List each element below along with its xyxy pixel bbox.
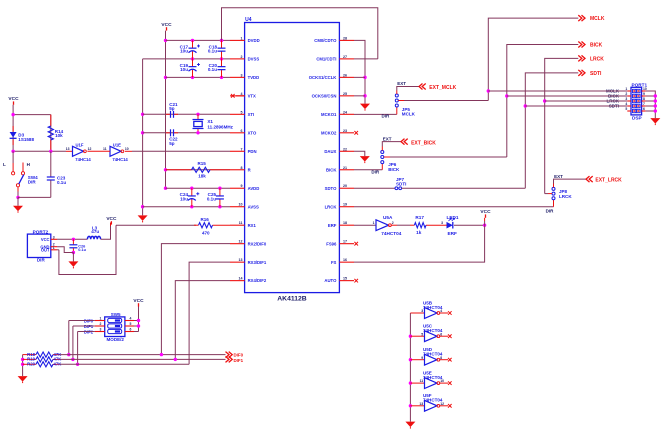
svg-text:DIR: DIR (37, 258, 46, 263)
svg-text:8: 8 (241, 166, 243, 170)
svg-text:10u: 10u (180, 67, 188, 72)
svg-text:11: 11 (420, 379, 424, 383)
svg-text:10k: 10k (55, 133, 63, 138)
svg-text:28: 28 (343, 36, 347, 40)
svg-text:R16: R16 (201, 217, 210, 222)
svg-text:11.2896MHz: 11.2896MHz (207, 124, 233, 129)
svg-text:6: 6 (440, 332, 442, 336)
svg-text:DSP: DSP (632, 115, 642, 120)
svg-text:LRCK: LRCK (325, 204, 338, 209)
svg-text:EXT: EXT (554, 174, 563, 179)
svg-text:27: 27 (343, 55, 347, 59)
svg-text:RX4/DIF2: RX4/DIF2 (248, 278, 267, 283)
svg-text:PDN: PDN (248, 149, 257, 154)
svg-text:R15: R15 (198, 161, 207, 166)
svg-text:MODE/2: MODE/2 (107, 337, 125, 342)
svg-text:LRCK: LRCK (559, 194, 572, 199)
svg-text:3: 3 (421, 309, 423, 313)
svg-text:BICK: BICK (326, 167, 337, 172)
svg-text:5: 5 (130, 322, 132, 326)
svg-text:U5A: U5A (383, 215, 393, 220)
svg-text:20: 20 (343, 184, 347, 188)
svg-text:VCC: VCC (8, 96, 19, 102)
svg-text:XTO: XTO (248, 130, 257, 135)
svg-text:1: 1 (53, 246, 55, 250)
svg-text:24: 24 (343, 110, 347, 114)
svg-text:R17: R17 (415, 215, 424, 220)
svg-text:4: 4 (241, 92, 243, 96)
svg-text:9: 9 (643, 92, 645, 96)
svg-text:11: 11 (239, 221, 243, 225)
svg-text:SW5: SW5 (111, 312, 121, 317)
svg-text:VCC: VCC (161, 22, 172, 28)
svg-text:2: 2 (392, 221, 394, 225)
svg-text:MCLK: MCLK (590, 16, 605, 22)
svg-text:DVDD: DVDD (248, 38, 260, 43)
svg-text:DVSS: DVSS (248, 56, 260, 61)
svg-text:EXT: EXT (397, 81, 406, 86)
svg-text:10: 10 (239, 203, 243, 207)
svg-text:7: 7 (241, 147, 243, 151)
svg-text:RX1: RX1 (248, 223, 257, 228)
svg-text:26: 26 (343, 73, 347, 77)
svg-text:19: 19 (343, 203, 347, 207)
svg-text:8: 8 (643, 97, 645, 101)
svg-text:10: 10 (125, 147, 129, 151)
svg-text:3: 3 (441, 221, 443, 225)
svg-text:12: 12 (440, 402, 444, 406)
svg-text:EXT_BICK: EXT_BICK (411, 140, 436, 146)
svg-text:1k: 1k (416, 230, 422, 235)
svg-text:MCLK: MCLK (402, 112, 416, 117)
svg-text:10: 10 (440, 379, 444, 383)
svg-text:1: 1 (373, 221, 375, 225)
svg-text:AVSS: AVSS (248, 204, 259, 209)
svg-text:74HC14: 74HC14 (112, 157, 128, 162)
svg-text:U1E: U1E (113, 142, 121, 147)
svg-text:LRCK: LRCK (590, 57, 604, 63)
svg-text:ERF: ERF (328, 223, 337, 228)
svg-text:VCC: VCC (133, 298, 144, 304)
svg-text:13: 13 (239, 258, 243, 262)
svg-text:DIR: DIR (371, 170, 380, 175)
svg-text:LED1: LED1 (447, 215, 459, 220)
svg-text:VCC: VCC (41, 237, 50, 242)
svg-text:RX2/DIF0: RX2/DIF0 (248, 241, 267, 246)
svg-text:15: 15 (343, 277, 347, 281)
svg-text:VTX: VTX (248, 93, 256, 98)
svg-text:3: 3 (241, 73, 243, 77)
svg-text:18k: 18k (198, 173, 206, 178)
svg-text:0.1u: 0.1u (208, 49, 217, 54)
svg-text:5p: 5p (169, 141, 175, 146)
svg-text:13: 13 (66, 147, 70, 151)
svg-text:EXT_MCLK: EXT_MCLK (429, 85, 456, 91)
svg-text:5: 5 (625, 107, 627, 111)
svg-text:10u: 10u (180, 49, 188, 54)
svg-text:3: 3 (53, 235, 55, 239)
svg-text:OCKS0/CSN: OCKS0/CSN (312, 93, 337, 98)
svg-text:XTI: XTI (248, 112, 255, 117)
svg-text:MCKO2: MCKO2 (321, 130, 337, 135)
svg-text:DIR: DIR (546, 208, 555, 213)
svg-text:CM0/CDTO: CM0/CDTO (314, 38, 337, 43)
svg-text:VCC: VCC (480, 209, 491, 215)
svg-text:0.1u: 0.1u (208, 67, 217, 72)
svg-text:1: 1 (241, 36, 243, 40)
svg-text:4: 4 (130, 316, 132, 320)
svg-text:SDTO: SDTO (325, 186, 337, 191)
svg-text:22: 22 (343, 147, 347, 151)
svg-text:U4: U4 (245, 17, 252, 23)
svg-text:OUT: OUT (41, 248, 50, 253)
svg-text:EXT_LRCK: EXT_LRCK (595, 178, 622, 184)
svg-text:EXT: EXT (383, 136, 392, 141)
svg-text:25: 25 (343, 92, 347, 96)
svg-text:DIR: DIR (382, 114, 391, 119)
svg-text:74HCT04: 74HCT04 (381, 231, 401, 236)
svg-text:DAUX: DAUX (324, 149, 336, 154)
svg-text:SDTI: SDTI (396, 182, 406, 187)
svg-text:OCKS1/CCLK: OCKS1/CCLK (309, 75, 338, 80)
svg-text:U1F: U1F (76, 142, 84, 147)
svg-text:10u: 10u (180, 197, 188, 202)
svg-text:12: 12 (239, 240, 243, 244)
svg-text:3: 3 (100, 327, 102, 331)
svg-text:12: 12 (88, 147, 92, 151)
svg-text:RX3/DIF1: RX3/DIF1 (248, 260, 267, 265)
svg-text:FS: FS (331, 260, 337, 265)
svg-text:470: 470 (202, 231, 210, 236)
svg-text:R: R (248, 167, 251, 172)
svg-text:2: 2 (241, 55, 243, 59)
svg-text:1S1588: 1S1588 (18, 137, 34, 142)
svg-text:VCC: VCC (106, 216, 117, 222)
svg-text:FS96: FS96 (326, 241, 337, 246)
svg-text:74HC14: 74HC14 (75, 157, 91, 162)
svg-text:7: 7 (643, 102, 645, 106)
svg-text:L: L (3, 162, 6, 167)
svg-text:21: 21 (343, 166, 347, 170)
svg-text:23: 23 (343, 129, 347, 133)
svg-text:AUTO: AUTO (324, 278, 337, 283)
svg-text:MCKO1: MCKO1 (321, 112, 337, 117)
svg-text:4: 4 (440, 309, 442, 313)
svg-text:SDTI: SDTI (590, 71, 602, 77)
svg-text:ERF: ERF (448, 231, 458, 236)
svg-text:18: 18 (343, 221, 347, 225)
svg-text:1: 1 (100, 316, 102, 320)
svg-text:6: 6 (241, 129, 243, 133)
svg-text:6: 6 (643, 107, 645, 111)
svg-text:14: 14 (239, 277, 243, 281)
svg-text:R20: R20 (27, 362, 35, 367)
svg-text:0.1u: 0.1u (57, 180, 66, 185)
svg-text:6: 6 (130, 327, 132, 331)
svg-text:47u: 47u (91, 229, 99, 234)
svg-text:5: 5 (241, 110, 243, 114)
svg-text:PORT2: PORT2 (33, 229, 49, 234)
svg-text:5p: 5p (169, 106, 175, 111)
svg-text:9: 9 (421, 356, 423, 360)
svg-text:13: 13 (419, 402, 423, 406)
svg-text:CM1/CDTI: CM1/CDTI (316, 56, 336, 61)
svg-text:DIF1: DIF1 (234, 358, 244, 363)
svg-text:16: 16 (343, 258, 347, 262)
svg-text:17: 17 (343, 240, 347, 244)
svg-text:BICK: BICK (388, 167, 400, 172)
svg-text:8: 8 (440, 356, 442, 360)
svg-text:2: 2 (100, 322, 102, 326)
svg-text:9: 9 (241, 184, 243, 188)
svg-text:5: 5 (421, 332, 423, 336)
svg-text:AK4112B: AK4112B (277, 296, 307, 303)
svg-text:TVDD: TVDD (248, 75, 260, 80)
svg-text:BICK: BICK (590, 43, 603, 49)
svg-text:AVDD: AVDD (248, 186, 260, 191)
svg-text:11: 11 (103, 147, 107, 151)
svg-text:0.1u: 0.1u (78, 247, 86, 252)
svg-text:0.1u: 0.1u (207, 197, 216, 202)
svg-text:DIR: DIR (28, 179, 37, 184)
